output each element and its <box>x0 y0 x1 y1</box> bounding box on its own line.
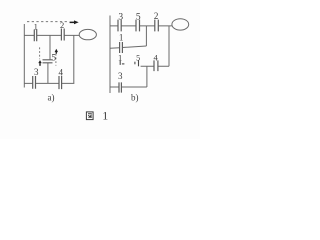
capacitor C4 plates (a) <box>59 76 62 89</box>
capacitor C5 plates (a) <box>43 60 53 63</box>
svg-text:a): a) <box>48 92 55 102</box>
capacitor C3 plates (b row4) <box>119 82 121 92</box>
wire right vertical (a) <box>73 35 75 83</box>
wire left vertical (a) <box>23 24 25 88</box>
svg-text:3: 3 <box>118 71 123 81</box>
svg-text:5: 5 <box>136 54 140 63</box>
capacitor C3 plates (a) <box>33 76 36 89</box>
battery / source ellipse (b) <box>172 19 189 30</box>
caption glyph 图 (drawn) <box>86 112 93 120</box>
svg-text:1: 1 <box>118 53 122 63</box>
wire top (b) <box>110 25 172 27</box>
battery / source ellipse (a) <box>79 29 96 39</box>
capacitor C4 plates (b row3) <box>154 60 158 71</box>
svg-text:2: 2 <box>154 11 159 21</box>
wire row2 (b) <box>110 46 146 48</box>
svg-text:3: 3 <box>118 12 123 22</box>
svg-text:1: 1 <box>119 32 124 42</box>
capacitor C1 plates (b row2) <box>120 42 123 53</box>
wire row4 (b) <box>110 86 147 88</box>
wire left vertical (b) <box>109 16 111 94</box>
wire riser row3-row4 <box>146 66 148 87</box>
svg-text:3: 3 <box>34 67 39 77</box>
svg-text:1: 1 <box>102 109 108 123</box>
wire right vertical (b) <box>168 26 170 66</box>
small cap symbol below label 5 (stub branch) <box>135 60 139 66</box>
wire cap5 bottom lead <box>47 63 49 83</box>
svg-text:2: 2 <box>60 20 64 30</box>
svg-text:5: 5 <box>52 53 57 63</box>
dashed vertical right of C5 <box>55 54 57 66</box>
wire bottom (a) <box>24 82 74 84</box>
wire cap5 top lead <box>49 35 51 59</box>
capacitor C2 plates (b top) <box>155 20 159 32</box>
arrow up (left of C5) <box>38 60 41 66</box>
svg-text:b): b) <box>131 93 139 103</box>
dashed vertical left of C5 <box>39 47 41 59</box>
capacitor C1 plates (a) <box>34 30 36 42</box>
wire row2 riser to node M <box>145 26 147 46</box>
arrow right (dashed path head) <box>70 20 79 24</box>
wire row3 (b) <box>141 65 169 67</box>
svg-text:4: 4 <box>153 53 158 63</box>
capacitor C2 plates (a) <box>61 29 64 41</box>
svg-text:1: 1 <box>34 21 38 31</box>
small cap symbol below label 1 (stub branch) <box>120 61 124 65</box>
capacitor C3 plates (b top) <box>118 20 121 32</box>
dashed move path horizontal with right arrow <box>27 21 69 23</box>
svg-text:4: 4 <box>59 67 64 77</box>
svg-text:5: 5 <box>136 12 141 22</box>
capacitor C5 plates (b top) <box>136 20 140 32</box>
wire top (a) <box>24 34 79 36</box>
arrow up (right of C5) <box>55 49 58 54</box>
